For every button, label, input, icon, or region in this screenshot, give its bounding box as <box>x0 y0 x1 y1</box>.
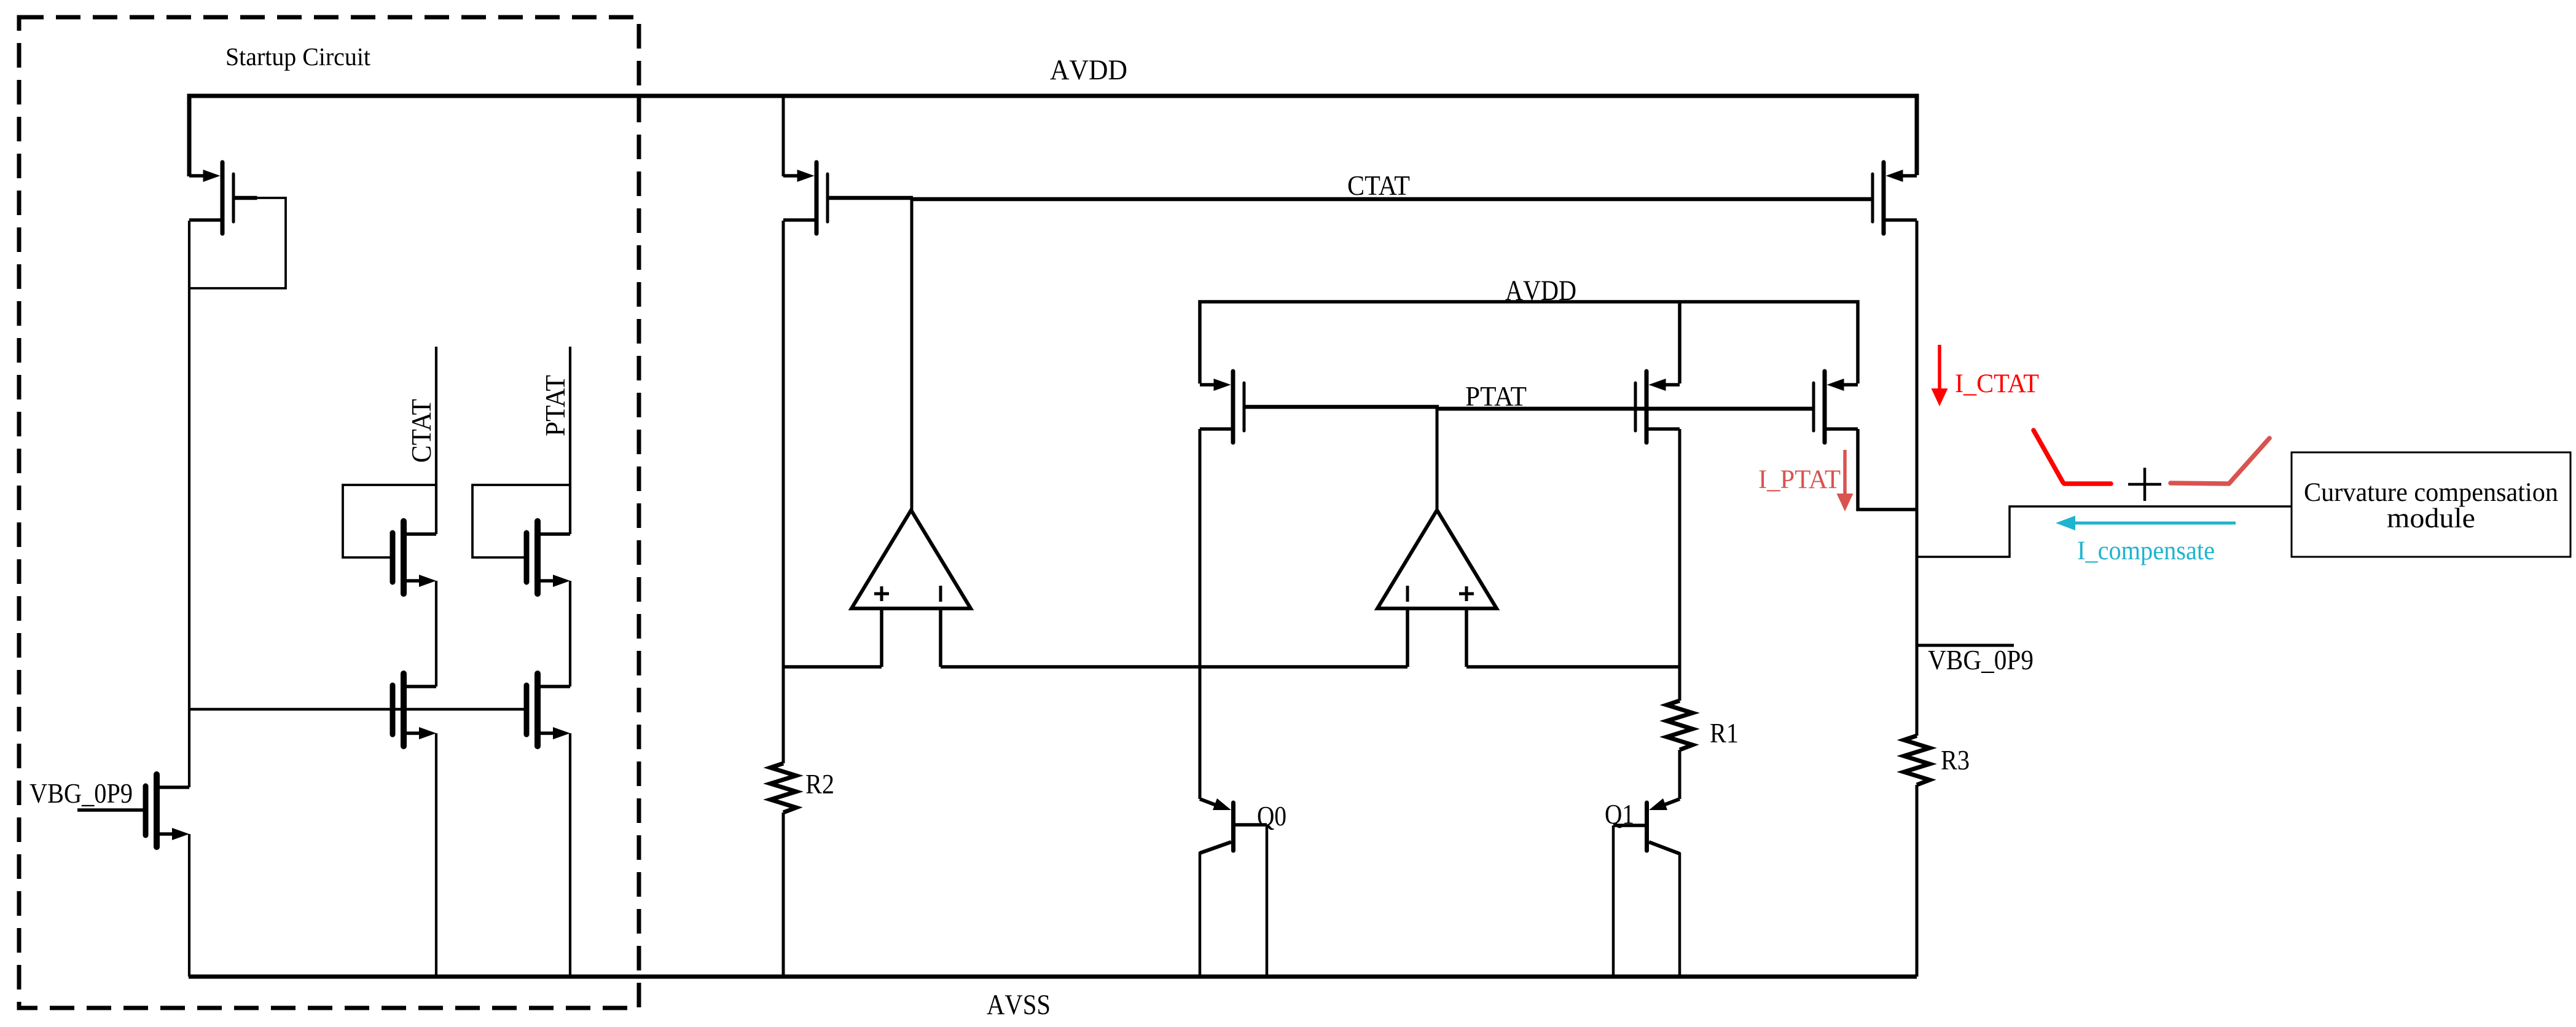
net PTAT line <box>1246 405 1439 409</box>
node VBG_0P9 stub <box>1917 644 2014 647</box>
transistor M2 (CTAT mirror right PMOS) <box>1873 162 1917 234</box>
wire: left vertical (MS1 drain / gate rail / MSV drain) <box>188 221 190 787</box>
arrow I_compensate (cyan) <box>2073 522 2236 525</box>
wire: M4 source from rail <box>1678 302 1681 384</box>
svg-text:VBG_0P9: VBG_0P9 <box>1928 645 2034 675</box>
wire: U1 output to CTAT <box>910 199 914 510</box>
transistor MS3 (PTAT diode NMOS) <box>527 521 570 594</box>
node PTAT (startup) stub <box>569 347 571 534</box>
svg-text:Q1: Q1 <box>1605 799 1634 830</box>
wire: MS5 source to AVSS <box>569 733 571 977</box>
resistor R3 <box>1904 736 1930 785</box>
transistor MS5 (lower PTAT NMOS) <box>527 674 570 746</box>
svg-text:Q0: Q0 <box>1257 801 1286 832</box>
net CTAT line <box>829 196 914 200</box>
wire: M1 drain column (to R2) <box>782 221 785 763</box>
wire: R3 bottom to AVSS <box>1916 785 1919 977</box>
wire: MSV gate lead <box>77 808 143 812</box>
glyph: CTAT curve (red) <box>2034 430 2111 484</box>
wire: MS4 source to AVSS <box>435 733 437 977</box>
wire: U1 plus input to R2 node <box>783 665 882 669</box>
current arrow I_CTAT <box>1938 345 1941 391</box>
wire: M2 drain column (to R3) <box>1916 221 1919 736</box>
current arrow I_PTAT <box>1843 450 1847 496</box>
wire: MS2 diode loop <box>343 485 436 557</box>
svg-text:CTAT: CTAT <box>1347 170 1410 201</box>
wire: M3 drain column (to Q0) <box>1199 429 1202 799</box>
wire: MS2 source to MS4 drain <box>435 581 437 687</box>
op-amp U1 (left op-amp) <box>851 510 971 667</box>
resistor R2 <box>770 763 796 813</box>
transistor MS2 (CTAT diode NMOS) <box>393 521 436 594</box>
wire: MSV source to AVSS <box>188 834 190 977</box>
glyph: plus sign <box>2128 483 2161 486</box>
transistor MSV (VBG_0P9 NMOS) <box>146 774 189 847</box>
wire: M1 source tap from AVDD <box>782 96 785 176</box>
wire: compensation input jog <box>1917 506 2292 557</box>
wire: U1 minus to U2 minus (through Q0 node) <box>941 665 1407 669</box>
svg-text:AVSS: AVSS <box>987 989 1051 1021</box>
svg-text:Startup Circuit: Startup Circuit <box>225 42 371 71</box>
wire: MS3 source to MS5 drain <box>569 581 571 687</box>
wire: MS3 diode loop <box>472 485 570 557</box>
svg-text:PTAT: PTAT <box>539 375 571 436</box>
wire: R2 bottom to AVSS <box>782 813 785 977</box>
glyph: PTAT curve (dark red) <box>2171 438 2269 484</box>
wire: U2 output to PTAT <box>1436 409 1439 510</box>
resistor R1 <box>1667 701 1693 750</box>
wire: M4 drain column (to R1) <box>1678 429 1681 701</box>
svg-text:PTAT: PTAT <box>1465 381 1527 412</box>
svg-text:CTAT: CTAT <box>405 399 437 463</box>
transistor M3 (PTAT mirror left PMOS) <box>1200 371 1244 443</box>
svg-text:VBG_0P9: VBG_0P9 <box>29 778 133 809</box>
svg-text:R1: R1 <box>1710 718 1739 749</box>
wire: U2 plus input to R1 node <box>1466 665 1680 669</box>
wire: MS1 diode loop (gate to drain) <box>235 196 257 200</box>
startup circuit dashed border <box>19 17 639 1008</box>
node CTAT (startup) stub <box>435 347 437 534</box>
AVDD rail <box>189 96 1917 176</box>
AVSS rail <box>189 975 1917 979</box>
wire: M5 drain to VBG node <box>1858 429 1917 510</box>
svg-text:I_PTAT: I_PTAT <box>1758 465 1841 494</box>
transistor M4 (PTAT mirror middle PMOS) <box>1635 371 1680 443</box>
op-amp U2 (right op-amp) <box>1377 510 1497 667</box>
transistor Q0 (PNP) <box>1200 798 1267 977</box>
svg-text:AVDD: AVDD <box>1050 54 1127 86</box>
svg-text:I_CTAT: I_CTAT <box>1955 369 2039 398</box>
inner AVDD rail <box>1200 302 1858 384</box>
wire: R1 bottom to Q1 <box>1678 750 1681 799</box>
transistor MS4 (lower CTAT NMOS) <box>393 674 436 746</box>
curvature compensation module box <box>2292 452 2570 557</box>
svg-text:module: module <box>2387 502 2475 533</box>
svg-text:I_compensate: I_compensate <box>2077 537 2215 565</box>
svg-text:R3: R3 <box>1941 745 1970 776</box>
transistor Q1 (PNP) <box>1613 798 1680 977</box>
svg-text:AVDD: AVDD <box>1505 275 1576 307</box>
transistor MS1 (startup PMOS) <box>189 162 233 234</box>
svg-text:R2: R2 <box>805 769 834 800</box>
transistor M1 (CTAT mirror left PMOS) <box>783 162 828 234</box>
wire: startup gate rail <box>189 708 524 710</box>
transistor M5 (PTAT mirror right PMOS) <box>1814 371 1858 443</box>
